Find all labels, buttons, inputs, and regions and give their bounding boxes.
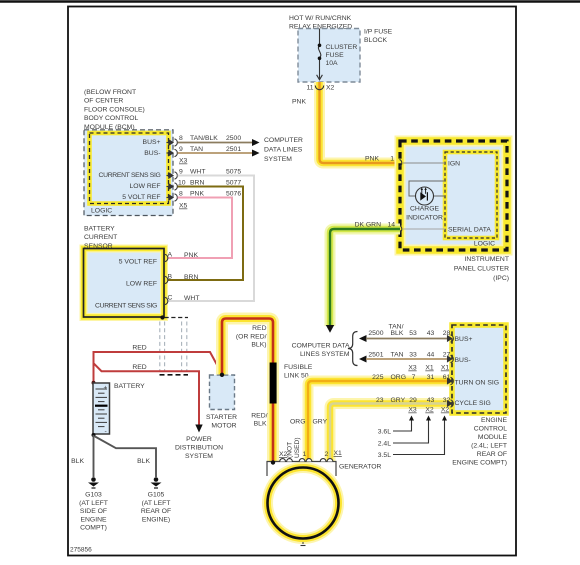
svg-text:28: 28: [443, 330, 451, 337]
svg-text:(IPC): (IPC): [493, 275, 509, 282]
sensor pin arcs A B C: [165, 254, 168, 304]
svg-text:3.6L: 3.6L: [378, 429, 391, 436]
svg-text:9: 9: [179, 146, 183, 153]
svg-text:MOTOR: MOTOR: [211, 423, 236, 430]
svg-text:BATTERY: BATTERY: [114, 383, 145, 390]
svg-text:X2: X2: [441, 407, 450, 414]
svg-text:8: 8: [179, 191, 183, 198]
svg-text:C: C: [168, 295, 173, 302]
svg-text:CONTROL: CONTROL: [474, 426, 507, 433]
wire RED/BLK core: [272, 403, 275, 462]
arrow left row 2500: [359, 335, 367, 342]
svg-text:10: 10: [178, 180, 186, 187]
svg-text:CURRENT: CURRENT: [84, 234, 117, 241]
svg-text:HOT W/ RUN/CRNK: HOT W/ RUN/CRNK: [289, 15, 352, 22]
svg-text:BUS-: BUS-: [455, 357, 471, 364]
label RED/BLK: [251, 413, 267, 428]
svg-text:IGN: IGN: [448, 161, 460, 168]
svg-text:2.4L: 2.4L: [378, 441, 391, 448]
svg-text:11: 11: [306, 85, 313, 92]
svg-text:TURN ON SIG: TURN ON SIG: [455, 380, 500, 387]
svg-text:PNK: PNK: [365, 156, 379, 163]
label RED (OR RED/BLK): [236, 325, 267, 349]
wire TAN/BLK 2500: [178, 142, 253, 144]
svg-text:CYCLE SIG: CYCLE SIG: [455, 400, 491, 407]
svg-text:5 VOLT REF: 5 VOLT REF: [122, 194, 160, 201]
wire RED battery to starter: [94, 352, 223, 383]
svg-text:14: 14: [387, 222, 395, 229]
svg-text:CURRENT SENS SIG: CURRENT SENS SIG: [99, 172, 161, 179]
svg-text:ENGINE COMPT): ENGINE COMPT): [452, 460, 507, 467]
svg-text:+: +: [104, 385, 108, 392]
svg-text:X1: X1: [441, 365, 450, 372]
svg-text:PANEL CLUSTER: PANEL CLUSTER: [454, 266, 509, 273]
svg-text:5076: 5076: [226, 191, 241, 198]
svg-text:TAN: TAN: [391, 352, 404, 359]
svg-text:ENGINE): ENGINE): [142, 516, 170, 523]
sensor pin labels: [95, 259, 157, 310]
svg-text:BUS-: BUS-: [144, 150, 160, 157]
svg-text:(NOT: (NOT: [287, 442, 294, 458]
svg-text:ENGINE: ENGINE: [481, 417, 508, 424]
svg-text:TAN: TAN: [190, 146, 203, 153]
IPC inner logic box: [445, 152, 497, 238]
svg-text:2500: 2500: [368, 330, 383, 337]
junction dot battery positive: [92, 381, 96, 385]
svg-text:BLOCK: BLOCK: [364, 37, 388, 44]
svg-text:BLK: BLK: [254, 421, 267, 428]
svg-text:X1: X1: [334, 450, 343, 457]
svg-text:BLK): BLK): [251, 342, 266, 349]
svg-text:I/P FUSE: I/P FUSE: [364, 29, 393, 36]
generator ground tick: [301, 545, 306, 547]
I/P fuse block box: [298, 29, 360, 83]
svg-text:53: 53: [409, 330, 417, 337]
svg-text:DISTRIBUTION: DISTRIBUTION: [175, 445, 223, 452]
generator case top plate: [267, 462, 336, 477]
svg-text:RED/: RED/: [251, 413, 267, 420]
charge indicator lamp: [416, 187, 434, 205]
svg-text:(BELOW FRONT: (BELOW FRONT: [84, 89, 136, 96]
wire ORG core: [308, 381, 452, 461]
svg-text:BLK: BLK: [71, 458, 84, 465]
wire TAN 2501: [178, 152, 253, 154]
svg-text:SENSOR: SENSOR: [84, 243, 113, 250]
arrow to computer data lines system (row 2): [252, 150, 260, 157]
computer data lines system text (middle): [292, 343, 350, 359]
svg-text:TAN/BLK: TAN/BLK: [190, 135, 218, 142]
svg-text:(AT LEFT: (AT LEFT: [79, 500, 108, 507]
wire GRY core: [330, 404, 452, 462]
svg-text:COMPUTER: COMPUTER: [264, 137, 303, 144]
svg-text:FUSIBLE: FUSIBLE: [284, 364, 313, 371]
svg-text:X5: X5: [179, 203, 188, 210]
wire PNK core: [320, 82, 401, 163]
engine variant arrows: [393, 419, 445, 455]
sensor clamp dashed loop: [165, 317, 189, 319]
wire PNK glow: [320, 82, 401, 163]
charge indicator loop wiring: [409, 181, 445, 196]
svg-text:BATTERY: BATTERY: [84, 226, 115, 233]
svg-text:43: 43: [427, 330, 435, 337]
ECM pin names: [455, 336, 500, 407]
wire BLK battery to G103: [93, 435, 95, 477]
svg-text:(AT LEFT: (AT LEFT: [142, 500, 171, 507]
svg-text:REAR OF: REAR OF: [141, 508, 171, 515]
svg-text:LOW REF: LOW REF: [126, 281, 157, 288]
arrow to computer data lines: [326, 325, 334, 333]
fusible link 50: [270, 363, 277, 404]
svg-text:G103: G103: [85, 492, 102, 499]
svg-text:ORG: ORG: [391, 374, 406, 381]
svg-text:FUSE: FUSE: [326, 52, 345, 59]
svg-text:5077: 5077: [226, 180, 241, 187]
svg-text:2500: 2500: [226, 135, 241, 142]
svg-text:LOW REF: LOW REF: [130, 183, 161, 190]
svg-text:1: 1: [303, 451, 307, 458]
svg-text:X2: X2: [425, 407, 434, 414]
BCM pin labels: [99, 139, 161, 201]
svg-text:X3: X3: [408, 407, 417, 414]
ECM caption: [452, 417, 507, 467]
svg-text:OF CENTER: OF CENTER: [84, 98, 123, 105]
svg-text:PNK: PNK: [184, 252, 198, 259]
svg-text:5 VOLT REF: 5 VOLT REF: [119, 259, 157, 266]
generator circle: [268, 468, 339, 539]
svg-text:LOGIC: LOGIC: [474, 241, 495, 248]
junction dot battery negative: [92, 433, 96, 437]
svg-text:33: 33: [409, 352, 417, 359]
BCM caption: [84, 89, 145, 131]
svg-text:REAR OF: REAR OF: [477, 451, 507, 458]
svg-text:INDICATOR: INDICATOR: [406, 215, 443, 222]
ECM highlighted box: [452, 325, 506, 413]
svg-text:INSTRUMENT: INSTRUMENT: [464, 256, 509, 263]
svg-text:2501: 2501: [226, 146, 241, 153]
svg-text:GRY: GRY: [391, 397, 406, 404]
junction dot generator X2: [271, 460, 275, 464]
cluster fuse 10A: [317, 29, 323, 80]
wire RED battery to power distribution: [94, 363, 200, 425]
svg-text:DK GRN: DK GRN: [355, 222, 382, 229]
svg-text:MODULE: MODULE: [478, 434, 508, 441]
svg-text:LOGIC: LOGIC: [91, 208, 112, 215]
svg-text:LINES SYSTEM: LINES SYSTEM: [300, 351, 350, 358]
arrow left row 2501: [359, 356, 367, 363]
svg-text:X1: X1: [425, 365, 434, 372]
svg-text:PNK: PNK: [292, 99, 306, 106]
IPC pin arc 14: [400, 226, 402, 233]
brace: [348, 332, 358, 366]
svg-text:X3: X3: [179, 158, 188, 165]
svg-text:29: 29: [409, 397, 417, 404]
svg-text:WHT: WHT: [190, 169, 205, 176]
top page rule: [0, 0, 580, 2]
label (NOT USED) rotated: [287, 437, 302, 458]
svg-text:3.5L: 3.5L: [378, 452, 391, 459]
wire RED (OR RED/BLK) core: [222, 319, 273, 375]
wire TAN/BLK 2500 to ECM: [366, 338, 452, 340]
IPC outer box highlighted dashed: [400, 141, 507, 250]
battery: [93, 383, 110, 435]
svg-text:-: -: [105, 428, 107, 435]
svg-text:8: 8: [179, 135, 183, 142]
svg-text:SYSTEM: SYSTEM: [185, 453, 213, 460]
I/P fuse block label HOT W/ RUN/CRNK RELAY ENERGIZED: [289, 15, 393, 44]
svg-text:RED: RED: [132, 364, 146, 371]
svg-text:BRN: BRN: [190, 180, 204, 187]
wire DK GRN core: [330, 229, 400, 326]
svg-text:BLK: BLK: [137, 458, 150, 465]
BCM outer dashed box: [84, 130, 173, 216]
svg-text:275856: 275856: [70, 547, 92, 554]
drawing frame border: [68, 7, 516, 556]
svg-text:CHARGE: CHARGE: [410, 206, 440, 213]
svg-text:ORG: ORG: [290, 419, 305, 426]
svg-text:RED: RED: [132, 345, 146, 352]
BCM right-side pin numbers and circuit labels: [178, 135, 241, 210]
svg-text:SYSTEM: SYSTEM: [264, 156, 292, 163]
svg-text:WHT: WHT: [184, 295, 199, 302]
svg-text:5075: 5075: [226, 169, 241, 176]
computer data lines system text (top): [264, 137, 303, 163]
svg-text:43: 43: [427, 397, 435, 404]
wire PNK 5076 BCM to sensor A: [168, 198, 232, 259]
wire WHT 5075 BCM to sensor C: [168, 176, 254, 302]
wire TAN 2501 to ECM: [366, 358, 452, 360]
BCM pin arrows and arcs: [167, 139, 178, 201]
svg-text:RED: RED: [252, 325, 266, 332]
sensor caption: [84, 226, 117, 250]
BCM inner highlighted logic box: [90, 133, 169, 204]
wire GRY 23 to generator glow: [330, 404, 452, 462]
svg-text:2: 2: [325, 451, 329, 458]
sensor clamp junction dot: [160, 315, 164, 319]
svg-text:44: 44: [427, 352, 435, 359]
svg-text:23: 23: [376, 397, 384, 404]
svg-text:COMPT): COMPT): [80, 525, 107, 532]
svg-text:GENERATOR: GENERATOR: [339, 464, 382, 471]
wire BRN 5077 BCM to sensor B: [168, 187, 243, 281]
wire BLK battery to G105: [95, 437, 156, 478]
svg-text:X3: X3: [408, 365, 417, 372]
svg-text:BODY CONTROL: BODY CONTROL: [84, 115, 138, 122]
svg-text:1: 1: [390, 156, 394, 163]
svg-text:USED): USED): [294, 437, 301, 458]
svg-text:ENGINE: ENGINE: [80, 516, 107, 523]
svg-text:G105: G105: [148, 492, 165, 499]
svg-text:BRN: BRN: [184, 274, 198, 281]
IPC pin 1 lead: [403, 162, 445, 164]
svg-text:2501: 2501: [368, 352, 383, 359]
svg-text:CURRENT SENS SIG: CURRENT SENS SIG: [95, 303, 157, 310]
svg-text:BUS+: BUS+: [143, 139, 161, 146]
svg-text:POWER: POWER: [186, 436, 212, 443]
ECM pin arcs: [448, 335, 454, 407]
svg-text:A: A: [168, 252, 173, 259]
svg-text:SIDE OF: SIDE OF: [80, 508, 107, 515]
svg-text:DATA LINES: DATA LINES: [264, 146, 303, 153]
svg-text:COMPUTER DATA: COMPUTER DATA: [292, 343, 350, 350]
svg-text:(OR RED/: (OR RED/: [236, 333, 267, 340]
wire RED (OR RED/BLK) glow: [222, 319, 273, 463]
wire DK GRN glow: [330, 229, 400, 326]
generator circle glow: [268, 468, 339, 539]
svg-text:10A: 10A: [326, 60, 339, 67]
generator terminal bumps: [280, 459, 333, 462]
svg-text:GRY: GRY: [313, 419, 328, 426]
arrow to power distribution system: [195, 425, 202, 433]
junction dot at starter motor: [220, 373, 224, 377]
svg-text:STARTER: STARTER: [206, 414, 237, 421]
fuse output connector 11 X2: [315, 86, 323, 90]
IPC pin 14 lead: [403, 228, 445, 230]
svg-text:SERIAL DATA: SERIAL DATA: [448, 227, 491, 234]
svg-text:31: 31: [427, 374, 435, 381]
svg-text:225: 225: [372, 374, 384, 381]
arrow to computer data lines system (row 1): [252, 139, 260, 146]
svg-text:B: B: [168, 274, 173, 281]
ECM table text: [368, 323, 450, 413]
IPC pin arc 1: [400, 160, 402, 167]
ground G103: [88, 477, 99, 488]
svg-text:7: 7: [412, 374, 416, 381]
sensor highlighted box: [84, 249, 165, 318]
svg-text:CLUSTER: CLUSTER: [326, 44, 358, 51]
svg-text:BUS+: BUS+: [455, 336, 473, 343]
svg-text:PNK: PNK: [190, 191, 204, 198]
svg-text:FLOOR CONSOLE): FLOOR CONSOLE): [84, 106, 145, 113]
svg-text:9: 9: [179, 169, 183, 176]
svg-text:(2.4L; LEFT: (2.4L; LEFT: [471, 443, 507, 450]
starter motor box: [210, 375, 235, 410]
svg-text:BLK: BLK: [391, 330, 404, 337]
generator pin labels: [279, 450, 342, 458]
ground G105: [151, 477, 162, 488]
wire ORG 225 to generator glow: [308, 381, 452, 461]
svg-text:X2: X2: [326, 85, 335, 92]
